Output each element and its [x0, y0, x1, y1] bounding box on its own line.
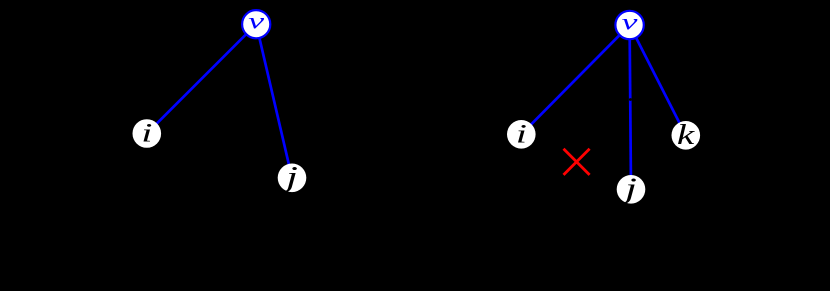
- node v (left): [242, 9, 270, 39]
- wire: edge v-i (left): [147, 24, 256, 133]
- junction: small black dot on edge v-j (right): [629, 98, 632, 101]
- node k (right): [672, 119, 701, 151]
- svg-text:v: v: [248, 9, 265, 34]
- svg-text:i: i: [516, 120, 527, 148]
- wire: edge v-i (right): [521, 25, 629, 134]
- svg-text:i: i: [141, 119, 152, 147]
- svg-text:v: v: [622, 9, 639, 34]
- red X (crossed-out) mark: [564, 149, 590, 175]
- svg-text:k: k: [677, 119, 695, 151]
- wire: edge v-j (right): [630, 25, 631, 189]
- node i (left): [133, 119, 162, 148]
- node v (right): [615, 9, 643, 39]
- wire: edge v-j (left): [256, 24, 292, 178]
- node j (left): [278, 160, 307, 192]
- node j (right): [617, 171, 646, 203]
- node i (right): [507, 120, 536, 149]
- wire: edge v-k (right): [630, 25, 686, 135]
